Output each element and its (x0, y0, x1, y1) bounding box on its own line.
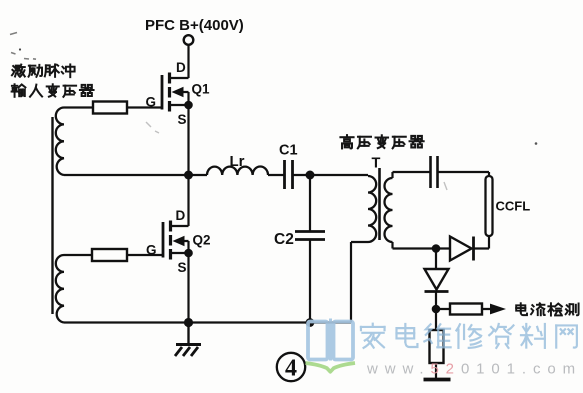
svg-text:CCFL: CCFL (496, 199, 531, 214)
svg-text:Q1: Q1 (192, 82, 211, 97)
svg-text:C2: C2 (274, 231, 294, 248)
svg-text:T: T (372, 156, 381, 172)
svg-text:PFC B+(400V): PFC B+(400V) (145, 17, 244, 34)
svg-text:www.520101.com: www.520101.com (366, 361, 582, 378)
svg-text:D: D (176, 208, 186, 223)
svg-text:Lr: Lr (230, 153, 245, 170)
svg-text:S: S (178, 112, 187, 127)
svg-text:S: S (178, 260, 187, 275)
svg-text:Q2: Q2 (193, 233, 211, 248)
svg-text:C1: C1 (279, 143, 298, 159)
svg-text:G: G (146, 243, 157, 258)
svg-text:D: D (176, 60, 186, 75)
svg-text:G: G (146, 95, 157, 110)
svg-text:4: 4 (285, 356, 297, 382)
